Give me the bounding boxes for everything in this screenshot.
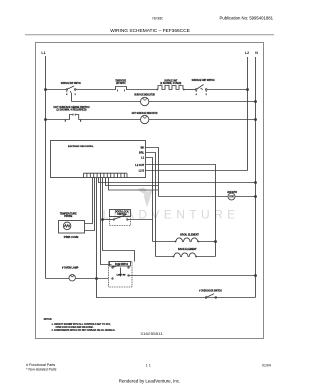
svg-text:L1: L1 <box>41 51 45 55</box>
svg-text:DOOR SWITCH: DOOR SWITCH <box>115 263 128 266</box>
svg-text:BAKE ELEMENT: BAKE ELEMENT <box>178 248 197 251</box>
wire rail3 L1 to sense switch <box>46 119 68 121</box>
svg-text:# OVEN DOOR SWITCH: # OVEN DOOR SWITCH <box>199 290 222 293</box>
junction dot rail3 at N <box>255 119 257 121</box>
wire lock switch right lead <box>128 219 152 221</box>
relay door lock switch box <box>110 210 131 217</box>
switch latch switch (bottom rail) <box>205 297 207 299</box>
junction dot rail1 at L1 <box>45 89 47 91</box>
svg-text:L2 OUT: L2 OUT <box>135 164 144 167</box>
watermark logo chevron <box>138 188 153 208</box>
node L1 rail <box>45 56 47 279</box>
svg-text:BK: BK <box>141 146 145 149</box>
wire lock switch left lead <box>103 219 113 221</box>
svg-text:(2 SHOWN, 4 REQUIRED): (2 SHOWN, 4 REQUIRED) <box>57 109 87 112</box>
motor lock motor circle <box>228 193 235 200</box>
svg-text:PRB CON: PRB CON <box>64 236 79 239</box>
svg-text:# Functional Parts: # Functional Parts <box>26 363 55 367</box>
svg-text:PROBE: PROBE <box>64 215 72 218</box>
lamp hot surface indicator <box>141 115 149 123</box>
svg-text:(2 SHOWN, 4 USED): (2 SHOWN, 4 USED) <box>160 82 181 85</box>
wire EOC pin L2-OUT to element return <box>146 165 216 257</box>
resistor broil element <box>153 238 216 242</box>
svg-text:LIMIT SWITCH: LIMIT SWITCH <box>116 82 126 85</box>
svg-text:2: 2 <box>206 94 207 96</box>
switch door lock blade <box>113 219 114 220</box>
junction dot motor rail at N <box>255 196 257 198</box>
wire comb to probe top <box>85 178 93 224</box>
junction dot broil right <box>215 241 217 243</box>
wire lamp to door switch <box>75 278 108 280</box>
wire door switch to N <box>129 275 255 277</box>
junction dot lamp rail at N <box>255 275 257 277</box>
junction dot rail3 at L1 <box>45 119 47 121</box>
svg-text:SURFACE INDICATOR: SURFACE INDICATOR <box>134 93 155 96</box>
wire rail1 element to right switch <box>183 89 196 91</box>
switch surface unit (left, rail1) <box>66 89 68 91</box>
wire stair stub comb <box>106 178 159 186</box>
wire stair stub comb 2 <box>109 178 159 191</box>
node L2 rail <box>247 57 249 171</box>
wire lock motor rail to N <box>159 196 229 198</box>
transducer temperature probe box <box>59 221 85 234</box>
svg-text:NOTES:: NOTES: <box>44 318 53 321</box>
wire rail2 to surface indicator <box>72 101 141 103</box>
wire stub from switch down to rail2 <box>71 93 73 102</box>
wire bottom rail riser to N <box>255 276 257 298</box>
junction dot rail1 at L2 <box>247 89 249 91</box>
lamp oven lamp <box>46 278 70 280</box>
switch temperature limiter (bump) <box>113 87 129 90</box>
junction dot lock switch tap <box>102 219 104 221</box>
op-amp electronic oven control box <box>51 141 146 178</box>
svg-text:Rendered by LeadVenture, Inc.: Rendered by LeadVenture, Inc. <box>119 379 181 384</box>
wire rail1 switch to limiter <box>76 89 113 91</box>
wire EOC pin BK to lock motor feed <box>146 148 159 197</box>
wire comb to door switch left <box>101 178 112 265</box>
resistor surface unit element (square humps) <box>158 86 183 90</box>
svg-text:HOT SURFACE INDICATOR: HOT SURFACE INDICATOR <box>132 112 158 115</box>
wire rail A comb to N <box>99 178 256 183</box>
svg-text:11: 11 <box>146 364 152 368</box>
wire comb to lock switch and door switch top <box>103 178 135 262</box>
schematic frame <box>36 43 264 339</box>
svg-text:Publication No: 5995401881: Publication No: 5995401881 <box>220 16 274 21</box>
wire EOC pin L2-B to L2 <box>146 170 248 172</box>
svg-text:SURFACE UNIT SWITCH: SURFACE UNIT SWITCH <box>192 79 215 82</box>
wire rail1 right switch to L2 <box>207 89 248 91</box>
svg-text:316255511: 316255511 <box>140 332 163 336</box>
wire rail1 limiter to surface element <box>129 89 158 91</box>
notes block <box>44 318 116 332</box>
wire comb to probe bottom <box>85 178 95 231</box>
svg-text:L2: L2 <box>245 51 249 55</box>
svg-text:LIGHT SW: LIGHT SW <box>117 275 126 277</box>
svg-text:2: 2 <box>75 94 76 96</box>
svg-text:LOCK MOTOR: LOCK MOTOR <box>227 191 237 194</box>
switch hot surface sense (bump) <box>67 115 81 120</box>
junction dot rail A at N <box>255 182 257 184</box>
wire EOC pin BRL to bake feed <box>146 153 156 257</box>
svg-text:SWITCH: SWITCH <box>117 213 126 216</box>
svg-text:ELECTRONIC OVEN CONTROL: ELECTRONIC OVEN CONTROL <box>68 146 94 148</box>
connector comb on EOC bottom edge <box>84 173 128 177</box>
svg-text:SURFACE UNIT SWITCH: SURFACE UNIT SWITCH <box>61 82 81 85</box>
switch surface unit (right, rail1) <box>195 89 197 91</box>
svg-text:WIRING SCHEMATIC – FEF366CCE: WIRING SCHEMATIC – FEF366CCE <box>110 28 190 34</box>
wire rail1 L1 to surface unit switch <box>46 89 67 91</box>
svg-text:01/04: 01/04 <box>262 364 271 368</box>
svg-text:# OVEN LAMP: # OVEN LAMP <box>62 267 79 270</box>
header rule <box>25 34 274 36</box>
switch door switch contacts <box>112 267 113 268</box>
wire EOC pin L1 to broil feed <box>146 158 153 242</box>
svg-text:2. COMPONENTS WITH # DO NOT: 2. COMPONENTS WITH # DO NOT APPEAR ON AL… <box>52 329 116 332</box>
junction dot lamp rail tap <box>96 278 98 280</box>
svg-text:L2 B: L2 B <box>139 169 145 172</box>
wire rail2 indicator to N <box>149 101 256 103</box>
relay oven door switch box <box>110 262 131 267</box>
wire rail3 sense switch to indicator <box>81 119 141 121</box>
svg-text:BRL: BRL <box>139 151 145 154</box>
svg-text:BROIL ELEMENT: BROIL ELEMENT <box>180 233 199 236</box>
junction dot rail2 at N <box>255 101 257 103</box>
wire comb to oven lamp feed <box>97 178 256 298</box>
svg-text:FEF366C: FEF366C <box>153 15 164 20</box>
svg-text:* Non-Isolated Parts: * Non-Isolated Parts <box>26 368 57 372</box>
node N rail <box>255 57 257 276</box>
sensor probe element <box>63 222 71 230</box>
svg-text:N: N <box>255 51 258 55</box>
lamp surface indicator <box>141 97 149 105</box>
wire rail3 indicator to N <box>149 119 256 121</box>
resistor bake element <box>156 253 216 257</box>
